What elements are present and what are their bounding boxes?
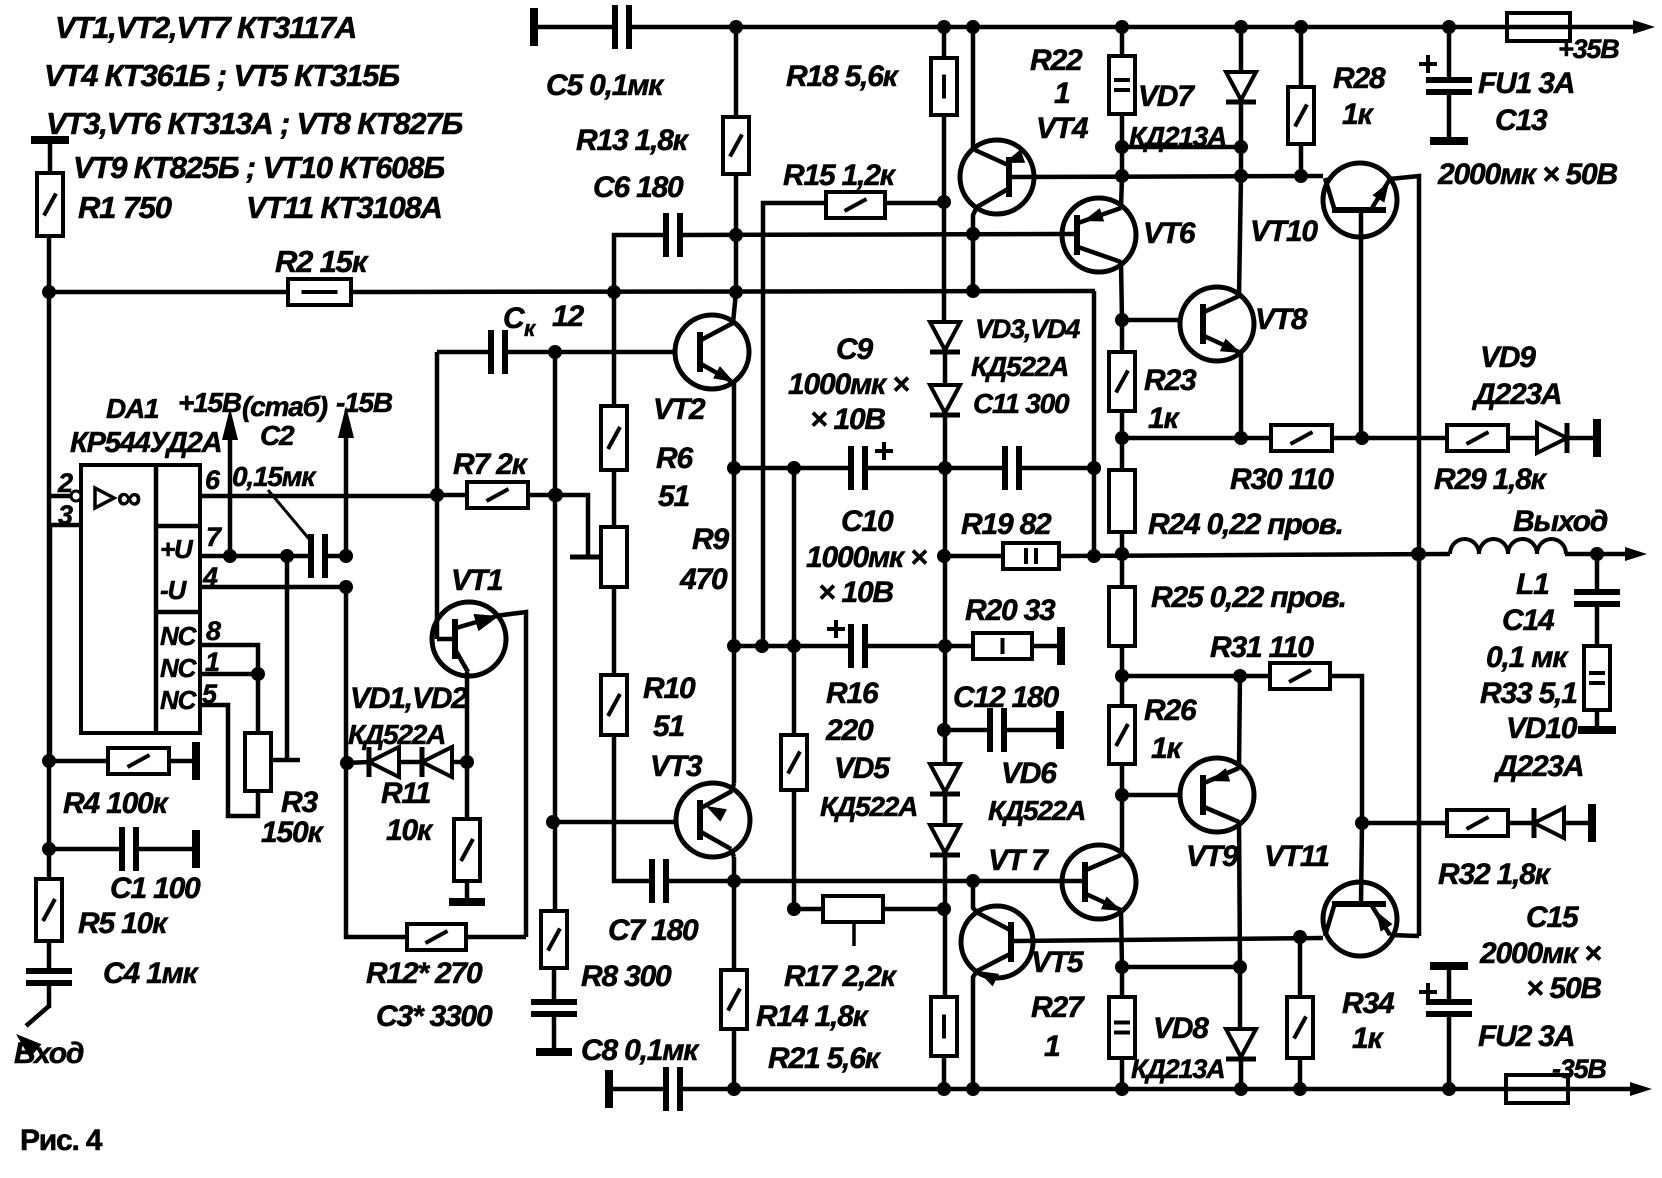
svg-text:R14 1,8к: R14 1,8к — [756, 1000, 870, 1033]
terminal C1 right — [192, 830, 200, 868]
wire VD3-VD4 — [943, 352, 948, 385]
svg-text:R20 33: R20 33 — [965, 594, 1056, 627]
wire VT5 collector — [973, 881, 978, 913]
svg-text:С12 180: С12 180 — [953, 681, 1060, 714]
resistor R10 — [601, 675, 627, 735]
diode VD8 — [1226, 1029, 1256, 1059]
svg-text:1000мк ×: 1000мк × — [806, 541, 927, 574]
label VT8 — [1255, 303, 1308, 336]
svg-text:С: С — [503, 302, 526, 335]
wire R32-VD10 — [1508, 821, 1534, 826]
wire box right rail — [1087, 291, 1101, 556]
label C8 — [581, 1034, 700, 1067]
capacitor C15 — [1419, 983, 1472, 1014]
label pin4 — [202, 562, 218, 592]
terminal bottom-left — [605, 1070, 613, 1108]
wire VD4 down — [943, 415, 948, 468]
label VT10 — [1250, 215, 1318, 248]
svg-text:С10: С10 — [841, 505, 894, 538]
wire R31 line — [1122, 669, 1270, 683]
label R34 value — [1352, 1022, 1384, 1055]
label C7 — [608, 914, 699, 947]
svg-text:Вход: Вход — [14, 1037, 84, 1070]
transistor VT9 — [1180, 758, 1254, 832]
label R10 — [643, 672, 696, 705]
svg-text:КД522А: КД522А — [348, 719, 445, 750]
wire R6-R9 — [612, 470, 617, 527]
wire R29-VD9 — [1508, 436, 1537, 441]
fuse FU1 — [1507, 13, 1570, 41]
label R25 text — [1151, 581, 1346, 614]
terminal C15 top — [1430, 962, 1468, 970]
wire VD6 down — [937, 723, 951, 997]
svg-text:С13: С13 — [1495, 104, 1548, 137]
capacitor C13 — [1419, 55, 1472, 92]
svg-text:R10: R10 — [643, 672, 696, 705]
svg-text:0,15мк: 0,15мк — [232, 461, 317, 492]
svg-text:L1: L1 — [1516, 568, 1549, 601]
terminal top-left — [530, 8, 538, 46]
label R14 — [756, 1000, 870, 1033]
svg-text:12: 12 — [552, 300, 584, 333]
wire pin3 — [50, 525, 81, 758]
svg-text:R11: R11 — [381, 777, 431, 810]
wire pin6 output — [200, 494, 437, 499]
svg-text:8: 8 — [206, 616, 221, 646]
wire R18-VD3 — [937, 115, 951, 322]
label R1 750 — [78, 190, 172, 225]
wire C6 — [614, 227, 1063, 292]
svg-text:NC: NC — [160, 685, 198, 715]
svg-text:1: 1 — [1044, 1030, 1060, 1063]
wire VD rail low — [943, 646, 948, 764]
wire left rail — [42, 236, 56, 1008]
label pin5 — [202, 679, 218, 709]
op-amp DA1 body — [81, 465, 200, 733]
label C1 100 — [110, 872, 201, 905]
svg-text:FU1 3А: FU1 3А — [1478, 67, 1574, 100]
svg-text:× 10В: × 10В — [810, 403, 885, 436]
svg-text:-35В: -35В — [1552, 1054, 1606, 1084]
wire mid rail — [546, 352, 562, 911]
wire C12 — [944, 728, 1060, 733]
resistor R27 — [1109, 997, 1135, 1058]
label VT2 — [653, 393, 706, 426]
wire VD8 bottom — [1239, 1059, 1244, 1089]
label pin6 — [205, 465, 221, 495]
svg-text:2000мк ×: 2000мк × — [1479, 937, 1601, 970]
label R2 15k — [275, 244, 369, 279]
label R32 wire — [0, 0, 1, 1]
svg-text:R27: R27 — [1031, 991, 1085, 1024]
label KD522A-34 — [971, 351, 1068, 382]
label VT6 — [1143, 217, 1196, 250]
label C9 value — [788, 368, 909, 401]
diode VD1 — [369, 747, 399, 777]
wire C15 top — [1447, 966, 1452, 1002]
svg-text:VT1: VT1 — [451, 564, 503, 597]
wire VT11 emitter — [1390, 935, 1419, 936]
node top rail junctions — [729, 20, 1456, 34]
svg-text:VT4: VT4 — [1036, 112, 1089, 145]
label R21 text — [768, 1042, 882, 1075]
label R16 — [826, 677, 879, 710]
diode VD10 — [1534, 808, 1564, 838]
label C9 value2 — [810, 403, 885, 436]
wire R22 top — [1120, 27, 1125, 56]
resistor R12 — [407, 924, 466, 950]
wire VD7-R22 link — [1122, 145, 1241, 150]
capacitor C12 — [990, 708, 1004, 752]
capacitor C3* — [531, 1002, 577, 1014]
svg-text:R9: R9 — [692, 523, 729, 556]
terminal R4 right — [192, 742, 200, 780]
resistor R13 — [723, 117, 749, 174]
svg-text:R2 15к: R2 15к — [275, 244, 369, 279]
svg-text:С6 180: С6 180 — [593, 171, 684, 204]
resistor R18 — [931, 58, 957, 115]
label C2 value — [232, 461, 317, 492]
svg-text:51: 51 — [658, 480, 689, 513]
svg-text:1: 1 — [1054, 77, 1070, 110]
svg-text:VD1,VD2: VD1,VD2 — [350, 682, 468, 715]
capacitor C11 — [1005, 446, 1019, 490]
svg-text:VT5: VT5 — [1031, 946, 1085, 979]
svg-text:R31 110: R31 110 — [1210, 631, 1314, 664]
label KR544UD2A — [70, 427, 221, 459]
wire VD7 top — [1239, 27, 1244, 72]
wire main bias line — [49, 284, 1095, 299]
svg-text:FU2 3А: FU2 3А — [1478, 1020, 1574, 1053]
svg-text:NC: NC — [160, 621, 198, 651]
wire VT2 collector — [733, 292, 736, 323]
wire R31 right — [1330, 676, 1362, 823]
wire VD rail mid — [937, 468, 951, 646]
fuse FU2 — [1506, 1075, 1568, 1103]
label C15 value — [1479, 937, 1601, 970]
capacitor C9 — [851, 442, 893, 490]
label Vhod — [14, 1037, 84, 1070]
svg-text:VT1,VT2,VT7 КТ3117А: VT1,VT2,VT7 КТ3117А — [55, 10, 356, 45]
wire R14 bottom — [732, 1029, 737, 1089]
label R9 — [692, 523, 729, 556]
svg-text:КД213А: КД213А — [1131, 1054, 1224, 1084]
label DA1 supplies — [106, 387, 393, 424]
resistor R29 — [1447, 425, 1508, 451]
svg-text:NC: NC — [160, 653, 198, 683]
label +35V — [1558, 34, 1619, 64]
wire VT11 base — [1355, 816, 1369, 904]
label C2 — [260, 420, 295, 451]
wire R10-C7 — [614, 735, 652, 881]
svg-text:VT8: VT8 — [1255, 303, 1308, 336]
resistor R30 — [1271, 425, 1332, 451]
svg-text:1к: 1к — [1342, 98, 1374, 131]
wire C15 bottom — [1447, 1014, 1452, 1089]
label R15 — [783, 159, 897, 192]
wire VT8 emitter — [1234, 353, 1248, 445]
svg-text:VT9 КТ825Б ; VT10 КТ608Б: VT9 КТ825Б ; VT10 КТ608Б — [73, 150, 444, 185]
wire input arrow — [16, 1006, 49, 1058]
wire pin2 — [49, 494, 71, 499]
wire VD7 bottom — [1234, 102, 1248, 176]
wire VT3 base — [553, 820, 676, 825]
terminal R1 top — [31, 136, 69, 144]
label VD7 — [1138, 80, 1195, 113]
label KD522A-5 — [820, 791, 917, 822]
label VD10 — [1506, 712, 1578, 745]
svg-text:VT 7: VT 7 — [988, 844, 1049, 877]
svg-text:R32 1,8к: R32 1,8к — [1438, 858, 1552, 891]
label types line3 — [46, 106, 462, 141]
label R7 — [453, 448, 529, 481]
wire R24 — [1115, 438, 1129, 561]
label KD213A-8 — [1131, 1054, 1224, 1084]
label R18 — [786, 60, 900, 93]
wire C13 bottom — [1447, 92, 1452, 139]
wire R15 — [763, 203, 826, 646]
wire +35V top rail — [534, 20, 1655, 34]
svg-text:R6: R6 — [656, 442, 693, 475]
label pin2 — [57, 468, 73, 498]
wire pin8 — [200, 645, 258, 674]
svg-text:VD10: VD10 — [1506, 712, 1578, 745]
svg-text:R19 82: R19 82 — [961, 508, 1052, 541]
wire R30 line — [1122, 431, 1447, 445]
label VT11 text — [1264, 840, 1329, 873]
label R8 — [581, 960, 672, 993]
wire R11 top — [465, 762, 470, 819]
svg-text:КД522А: КД522А — [988, 795, 1085, 826]
wire R7-R9 jog — [556, 495, 601, 557]
wire VT6 emitter — [1115, 262, 1129, 327]
svg-text:С15: С15 — [1526, 901, 1580, 934]
wire R12 — [466, 935, 526, 940]
svg-text:Выход: Выход — [1513, 505, 1608, 538]
label Ck — [503, 300, 584, 341]
label VT3 — [650, 750, 703, 783]
wire R18 top — [942, 27, 947, 58]
resistor R11 — [454, 819, 480, 881]
svg-text:R29 1,8к: R29 1,8к — [1434, 463, 1548, 496]
resistor R24 — [1109, 470, 1135, 532]
label R28 value — [1342, 98, 1374, 131]
svg-text:VT6: VT6 — [1143, 217, 1196, 250]
diode VD3 — [930, 322, 960, 352]
wire R15 right — [885, 201, 944, 206]
label C12 — [953, 681, 1060, 714]
label NC2 — [160, 653, 198, 683]
wire VT10 base — [1359, 210, 1364, 438]
wire VT4 base — [1009, 169, 1323, 183]
svg-text:Д223А: Д223А — [1493, 750, 1583, 783]
svg-text:+U: +U — [160, 534, 194, 564]
node bottom rail junctions — [727, 1082, 1456, 1096]
resistor R2 — [288, 279, 351, 305]
label R22 — [1030, 44, 1083, 77]
svg-text:VT4 КТ361Б ; VT5 КТ315Б: VT4 КТ361Б ; VT5 КТ315Б — [44, 58, 399, 93]
label R31 text — [1210, 631, 1314, 664]
wire pin1 — [200, 667, 265, 681]
terminal R11 — [449, 898, 485, 906]
svg-text:2000мк × 50В: 2000мк × 50В — [1437, 158, 1617, 191]
svg-text:DA1: DA1 — [106, 393, 159, 424]
svg-text:(стаб): (стаб) — [242, 391, 328, 422]
svg-text:R18 5,6к: R18 5,6к — [786, 60, 900, 93]
label R11 — [381, 777, 431, 810]
resistor R32 — [1447, 810, 1508, 836]
label types line5 — [246, 190, 442, 225]
label -U — [160, 575, 187, 605]
resistor R20 — [973, 633, 1032, 659]
wire C3 stub — [552, 1014, 557, 1050]
label R32 text — [1438, 858, 1552, 891]
label figure caption — [20, 1124, 103, 1157]
resistor R26 — [1109, 706, 1135, 764]
label VT7 — [988, 844, 1049, 877]
wire VT6 base — [1063, 232, 1077, 237]
wire Ck — [437, 345, 675, 359]
label C3 — [376, 1000, 493, 1033]
label KD522A-6 — [988, 795, 1085, 826]
svg-text:VD3,VD4: VD3,VD4 — [975, 314, 1080, 344]
svg-text:1000мк ×: 1000мк × — [788, 368, 909, 401]
transistor VT3 — [676, 783, 750, 857]
label pin8 — [206, 616, 221, 646]
svg-text:VD5: VD5 — [834, 752, 891, 785]
label VT5 — [1031, 946, 1085, 979]
wire VT8 collector — [1239, 176, 1241, 296]
label R24 text — [1148, 508, 1343, 541]
resistor R7 — [467, 482, 528, 508]
svg-text:С9: С9 — [836, 333, 873, 366]
inductor L1 — [1450, 539, 1566, 554]
terminal C3 — [536, 1048, 572, 1056]
label types line2 — [44, 58, 399, 93]
label D223A-10 — [1493, 750, 1583, 783]
wire R14 top — [732, 881, 737, 970]
wire R16 bottom — [787, 790, 801, 916]
svg-text:1к: 1к — [1148, 402, 1180, 435]
wire R20 — [945, 644, 1061, 649]
svg-text:+15В: +15В — [178, 387, 242, 418]
label VD6 — [1001, 757, 1057, 790]
wire VT10 emitter — [1389, 176, 1426, 936]
resistor R34 — [1287, 997, 1313, 1058]
wire -35V bottom rail — [609, 1082, 1652, 1096]
resistor R4 — [108, 748, 169, 774]
capacitor C8 — [666, 1067, 680, 1111]
wire R32 line — [1362, 821, 1447, 826]
svg-text:КР544УД2А: КР544УД2А — [70, 427, 221, 459]
transistor VT6 — [1062, 198, 1136, 272]
label pin7 — [206, 522, 223, 552]
transistor VT8 — [1180, 287, 1254, 361]
label +U — [160, 534, 194, 564]
label R29 text — [1434, 463, 1548, 496]
label R3 value — [261, 816, 324, 849]
svg-text:470: 470 — [679, 563, 728, 596]
svg-text:R12* 270: R12* 270 — [366, 957, 483, 990]
label R27 — [1031, 991, 1085, 1024]
label C9 — [836, 333, 873, 366]
svg-text:R30 110: R30 110 — [1230, 463, 1334, 496]
wire R34 top — [1298, 937, 1303, 997]
wire VT9 collector — [1239, 676, 1240, 768]
label R27 value — [1044, 1030, 1060, 1063]
svg-text:VD7: VD7 — [1138, 80, 1195, 113]
terminal R20 — [1057, 627, 1065, 665]
wire R9-R10 — [612, 587, 617, 675]
wire C2 pointer — [268, 490, 310, 540]
transistor VT11 — [1323, 882, 1397, 956]
svg-text:С7 180: С7 180 — [608, 914, 699, 947]
wire VD9 out — [1567, 436, 1597, 441]
wire R1 top — [48, 140, 53, 173]
svg-text:R33 5,1: R33 5,1 — [1480, 677, 1577, 710]
wire VT2 emitter rail — [727, 382, 741, 783]
label R10 value — [653, 710, 684, 743]
svg-text:КД522А: КД522А — [820, 791, 917, 822]
pin 2 circle — [71, 491, 81, 501]
wire output rail — [944, 547, 1647, 563]
label R4 100k — [63, 787, 170, 820]
wire R21 bottom — [942, 1056, 947, 1089]
label VT4 — [1036, 112, 1089, 145]
svg-text:∞: ∞ — [117, 479, 141, 517]
wire R33 bottom — [1595, 710, 1600, 728]
resistor R5 — [36, 879, 62, 941]
svg-text:R5 10к: R5 10к — [78, 907, 169, 940]
label R19 text — [961, 508, 1052, 541]
wire R17 right — [883, 907, 944, 912]
wire VT3 emitter — [731, 849, 734, 881]
label NC3 — [160, 685, 198, 715]
resistor R17 — [823, 896, 883, 922]
wire pin4 -U — [200, 580, 353, 594]
label C10 — [841, 505, 894, 538]
svg-text:0,1 мк: 0,1 мк — [1486, 641, 1569, 674]
svg-text:× 10В: × 10В — [818, 576, 893, 609]
wire R16 top — [792, 646, 797, 735]
wire pin1-R3 — [256, 674, 261, 733]
resistor R28 — [1288, 87, 1314, 144]
svg-text:С5 0,1мк: С5 0,1мк — [546, 69, 665, 102]
wire R25-R26 — [1115, 646, 1129, 706]
capacitor C5 — [615, 5, 629, 49]
svg-text:R24 0,22 пров.: R24 0,22 пров. — [1148, 508, 1343, 541]
terminal C12 — [1056, 711, 1064, 749]
wire VD5-VD6 — [943, 794, 948, 825]
svg-text:220: 220 — [825, 714, 874, 747]
wire R6 — [612, 292, 617, 406]
wire R27 bottom — [1120, 1058, 1125, 1089]
diode VD7 — [1226, 72, 1256, 102]
svg-text:R7 2к: R7 2к — [453, 448, 529, 481]
diode VD9 — [1537, 423, 1567, 453]
svg-text:6: 6 — [205, 465, 221, 495]
wire R28 bottom — [1299, 144, 1304, 176]
wire R7 — [437, 488, 563, 502]
label types line4 — [73, 150, 444, 185]
diode VD4 — [930, 385, 960, 415]
svg-text:R8 300: R8 300 — [581, 960, 672, 993]
wire R11 bottom — [465, 881, 470, 900]
label FU2 — [1478, 1020, 1574, 1053]
resistor R3 — [245, 733, 271, 791]
capacitor C7 — [652, 859, 666, 903]
svg-text:R23: R23 — [1144, 364, 1197, 397]
